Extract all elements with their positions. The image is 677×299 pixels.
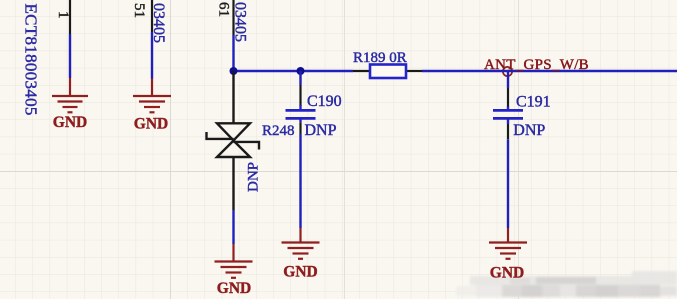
wire [69, 34, 71, 78]
ground [282, 228, 320, 259]
wire [507, 139, 509, 228]
svg-text:DNP: DNP [246, 162, 262, 192]
svg-text:DNP: DNP [305, 122, 337, 139]
svg-text:ECT818003405: ECT818003405 [22, 4, 41, 116]
ground [52, 78, 88, 112]
svg-text:R189 0R: R189 0R [353, 50, 407, 66]
diode R248 [207, 71, 260, 210]
svg-text:GND: GND [134, 116, 168, 133]
svg-text:GND: GND [490, 265, 524, 282]
svg-text:GND: GND [217, 280, 251, 297]
resistor R189 [353, 65, 422, 79]
wire [422, 70, 677, 72]
svg-text:51: 51 [131, 3, 147, 18]
svg-text:R248: R248 [262, 123, 295, 139]
ground [133, 79, 171, 113]
wire [232, 35, 234, 71]
svg-text:DNP: DNP [513, 122, 545, 139]
svg-text:C191: C191 [516, 93, 551, 110]
wire [299, 134, 301, 228]
pin 61 [232, 0, 234, 35]
pin 51 [151, 0, 153, 32]
capacitor C190 [286, 71, 316, 134]
svg-text:ANT_GPS_W/B: ANT_GPS_W/B [484, 57, 589, 73]
svg-text:C190: C190 [307, 93, 342, 110]
ground [215, 244, 253, 278]
wire [232, 210, 234, 244]
wire [151, 32, 153, 79]
svg-text:GND: GND [53, 114, 87, 131]
capacitor C191 [493, 71, 523, 139]
ground [489, 228, 527, 259]
node ANT_GPS_W/B marker [503, 67, 512, 76]
svg-text:61: 61 [216, 2, 232, 17]
pin 1 [69, 0, 71, 34]
svg-text:GND: GND [283, 264, 317, 281]
junction [230, 67, 238, 75]
junction [297, 67, 305, 75]
wire [234, 70, 354, 72]
svg-text:1: 1 [55, 11, 71, 19]
